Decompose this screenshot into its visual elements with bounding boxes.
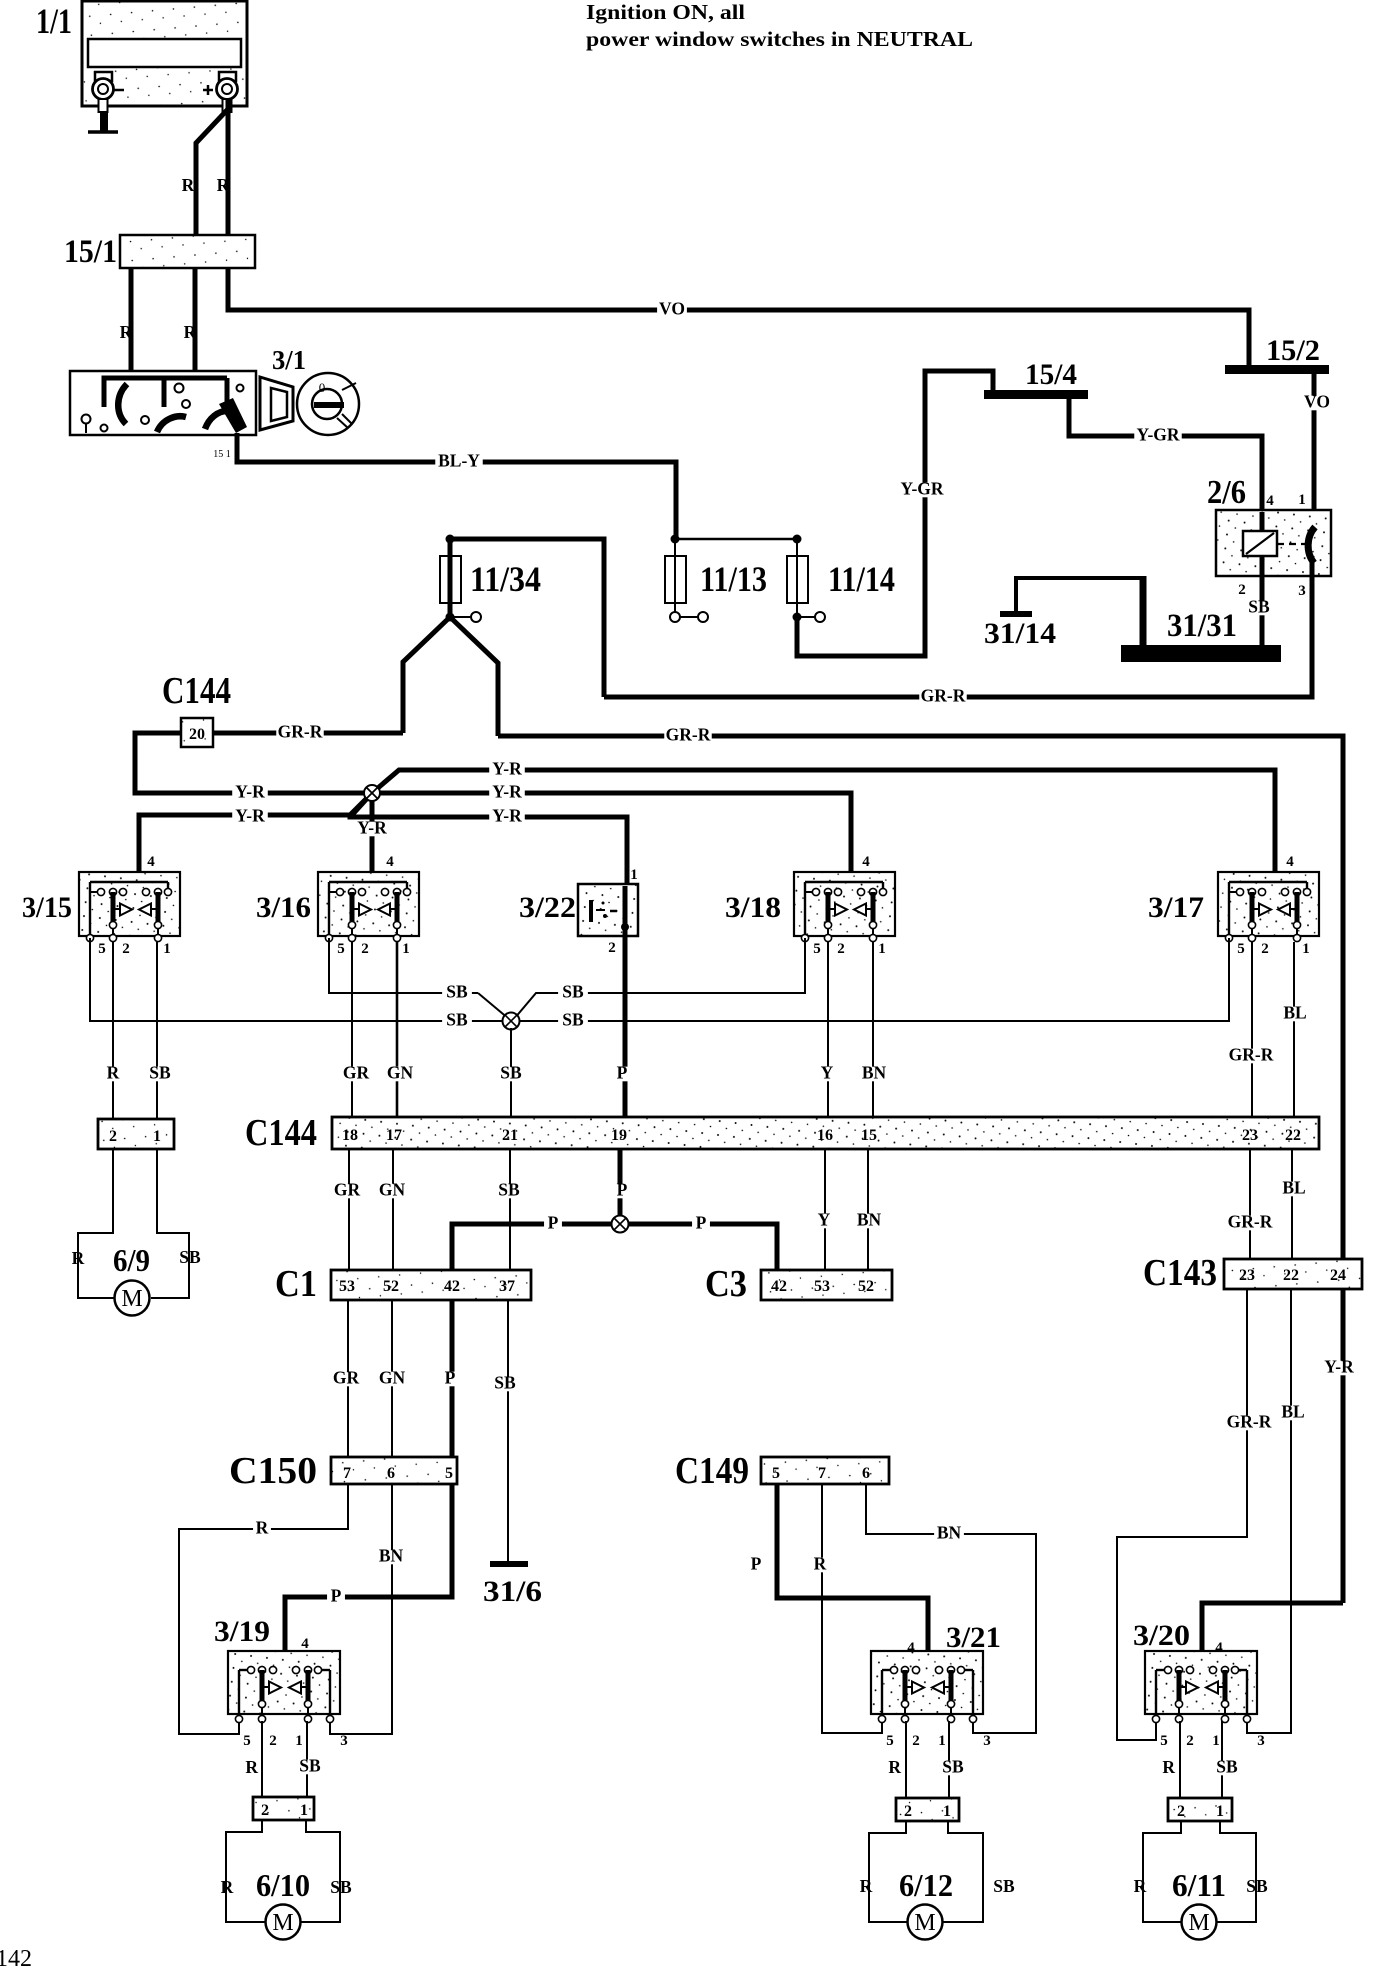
svg-text:2: 2 [269, 1733, 277, 1749]
svg-text:P: P [617, 1063, 628, 1083]
svg-text:0: 0 [319, 380, 326, 395]
wire R connector to motor 6/9 [78, 1149, 114, 1298]
svg-text:3/15: 3/15 [22, 891, 72, 924]
svg-text:GR-R: GR-R [1229, 1045, 1274, 1065]
wire label BL above C143 [1279, 1182, 1309, 1197]
wire label Y-R right mid [489, 786, 525, 801]
svg-text:22: 22 [1283, 1267, 1299, 1284]
svg-text:Y-R: Y-R [1324, 1357, 1354, 1377]
relay 2/6 contact [1308, 527, 1315, 563]
svg-text:6/12: 6/12 [899, 1867, 953, 1903]
wire P C150 to 3/19 pin4 [285, 1484, 452, 1669]
svg-text:R: R [107, 1063, 120, 1083]
wire label GR-R above C144 [1227, 1049, 1274, 1064]
wire Y-R junction to 3/18 [372, 793, 851, 891]
svg-text:R: R [256, 1518, 269, 1538]
svg-text:GR-R: GR-R [921, 686, 966, 706]
svg-text:SB: SB [993, 1876, 1015, 1896]
motor 6/11 symbol [1182, 1905, 1217, 1940]
wire BL-Y ignition to fuse 11/13 [237, 433, 676, 537]
fusebox 15/1 body [120, 235, 255, 268]
svg-text:Y-R: Y-R [492, 782, 522, 802]
svg-text:1: 1 [300, 1802, 308, 1819]
svg-text:2: 2 [608, 940, 616, 956]
svg-text:42: 42 [444, 1278, 460, 1295]
fuse 11/13 body [665, 539, 686, 612]
svg-text:6/9: 6/9 [113, 1242, 150, 1278]
wire P C1 to C150 [450, 1300, 455, 1457]
fuse 11/34 bottom node [446, 613, 455, 622]
wire label Y-GR vertical [898, 483, 945, 498]
svg-text:3/22: 3/22 [519, 891, 576, 924]
ground bus 31/31 bar [1121, 645, 1281, 662]
power window switch 3/16 body [318, 872, 419, 942]
svg-text:7: 7 [343, 1465, 351, 1482]
wire R 15/1 to 3/1 mid [193, 268, 198, 372]
wire label GR-R above C143 [1226, 1216, 1273, 1231]
svg-text:4: 4 [301, 1636, 309, 1652]
wire SB connector to motor 6/12 [943, 1821, 983, 1922]
svg-text:GR-R: GR-R [278, 722, 323, 742]
svg-text:2: 2 [1177, 1803, 1185, 1820]
wire label GN below C144 [377, 1184, 407, 1199]
wire label BN above C144 [859, 1067, 889, 1082]
svg-text:1: 1 [630, 867, 638, 883]
svg-text:SB: SB [562, 1010, 584, 1030]
wire label SB lower right [558, 1014, 588, 1029]
svg-text:power window switches in NEUTR: power window switches in NEUTRAL [586, 27, 973, 51]
wire GR-R C143 to 3/20 pin5 [1117, 1289, 1247, 1740]
wire label Y-R right edge [1321, 1361, 1357, 1376]
ignition key cylinder trapezoid [260, 377, 293, 430]
wire R connector to motor 6/10 [226, 1820, 265, 1922]
wire label SB 3/21 [938, 1761, 968, 1776]
svg-text:R: R [814, 1554, 827, 1574]
wire SB connector to motor 6/9 [151, 1149, 189, 1298]
svg-text:31/14: 31/14 [984, 617, 1056, 650]
svg-text:M: M [121, 1286, 142, 1312]
svg-text:GN: GN [387, 1063, 414, 1083]
svg-text:2: 2 [122, 941, 130, 957]
svg-text:53: 53 [339, 1278, 355, 1295]
svg-text:R: R [184, 322, 197, 342]
svg-text:1: 1 [878, 941, 886, 957]
svg-text:15/1: 15/1 [64, 234, 117, 270]
svg-text:M: M [914, 1910, 935, 1936]
svg-text:GR-R: GR-R [666, 725, 711, 745]
wire Y-R pin20 to junction [135, 733, 372, 793]
wire label GR-R pin20 [276, 726, 323, 741]
wire label BL above C144 [1280, 1007, 1310, 1022]
wire SB long bus lower [90, 938, 1229, 1021]
power window switch 3/18 body [794, 872, 895, 942]
wire SB C144 to C1 [509, 1149, 511, 1270]
svg-text:SB: SB [446, 1010, 468, 1030]
svg-text:1: 1 [1298, 492, 1306, 508]
svg-text:15 1: 15 1 [213, 449, 231, 460]
svg-text:SB: SB [1248, 597, 1270, 617]
svg-text:R: R [245, 1757, 258, 1777]
junction Y-R node [364, 785, 380, 801]
connector C144 bar [332, 1117, 1319, 1149]
wire label SB 3/15 [145, 1067, 175, 1082]
svg-text:GR-R: GR-R [1228, 1212, 1273, 1232]
svg-text:SB: SB [494, 1373, 516, 1393]
wire P C149 to 3/21 pin4 [777, 1484, 928, 1669]
svg-text:P: P [548, 1213, 559, 1233]
wire label BN to 3/21 [934, 1527, 964, 1542]
wire label SB 3/19 [295, 1760, 325, 1775]
wire R 3/21 pin2 to connector [905, 1721, 907, 1798]
svg-text:5: 5 [1237, 941, 1245, 957]
svg-text:BN: BN [937, 1523, 962, 1543]
wire label GN [385, 1067, 415, 1082]
wire VO 15/2 to relay pin1 [1312, 374, 1317, 530]
svg-text:C144: C144 [245, 1112, 317, 1154]
svg-text:Y-R: Y-R [492, 806, 522, 826]
svg-text:C1: C1 [275, 1263, 317, 1305]
svg-text:3: 3 [1298, 583, 1306, 599]
svg-text:2: 2 [1261, 941, 1269, 957]
svg-text:GN: GN [379, 1180, 406, 1200]
svg-text:3/18: 3/18 [725, 891, 781, 924]
wire SB connector to motor 6/11 [1217, 1821, 1256, 1922]
svg-text:BL-Y: BL-Y [438, 451, 480, 471]
wire R C150 to 3/19 pin5 [179, 1484, 348, 1734]
svg-text:BN: BN [857, 1210, 882, 1230]
wire Y C144 to C3 [824, 1149, 826, 1270]
fuse 11/34 top node [446, 535, 455, 544]
svg-text:GR: GR [334, 1180, 361, 1200]
svg-text:M: M [1188, 1910, 1209, 1936]
wire label R 3/15 [104, 1067, 122, 1082]
svg-text:Ignition ON, all: Ignition ON, all [586, 0, 745, 24]
svg-text:SB: SB [562, 982, 584, 1002]
svg-text:2: 2 [361, 941, 369, 957]
svg-text:1: 1 [938, 1733, 946, 1749]
svg-text:BL: BL [1281, 1402, 1304, 1422]
battery negative ground [88, 130, 118, 134]
svg-text:SB: SB [179, 1247, 201, 1267]
svg-text:19: 19 [611, 1127, 627, 1144]
wire SB 3/19 pin1 to connector [306, 1721, 308, 1797]
svg-text:2: 2 [109, 1128, 117, 1145]
svg-text:11/14: 11/14 [828, 559, 895, 599]
wire Y-R to 3/20 pin4 [1202, 1603, 1343, 1669]
svg-text:6/11: 6/11 [1172, 1867, 1226, 1903]
svg-text:2: 2 [837, 941, 845, 957]
wire R battery to 15/1 diagonal [196, 108, 229, 235]
fuse 11/13 top node [671, 535, 680, 544]
svg-text:2: 2 [1238, 582, 1246, 598]
svg-text:20: 20 [189, 726, 205, 743]
svg-text:SB: SB [1246, 1876, 1268, 1896]
svg-text:15: 15 [861, 1127, 877, 1144]
wire 11/13 to 11/14 link [675, 538, 797, 541]
svg-text:142: 142 [0, 1946, 32, 1970]
svg-text:23: 23 [1242, 1127, 1258, 1144]
power window switch 3/20 body [1145, 1651, 1257, 1723]
wire R 3/15 pin2 to connector [112, 942, 114, 1119]
svg-text:42: 42 [771, 1278, 787, 1295]
svg-text:52: 52 [858, 1278, 874, 1295]
svg-text:2/6: 2/6 [1207, 474, 1246, 511]
svg-text:11/34: 11/34 [470, 559, 541, 599]
wire label BL-Y [435, 455, 482, 470]
wire label Y-R left mid [232, 786, 268, 801]
wire SB C1 to ground 31/6 [507, 1300, 509, 1561]
wire label P below C144 [613, 1184, 631, 1199]
svg-text:2: 2 [1186, 1733, 1194, 1749]
power window switch 3/17 body [1218, 872, 1319, 942]
svg-text:C144: C144 [162, 670, 231, 712]
svg-text:53: 53 [814, 1278, 830, 1295]
svg-text:C150: C150 [229, 1450, 317, 1492]
wire R C149 to 3/21 pin5 [822, 1484, 882, 1733]
battery 1/1 body [82, 1, 247, 106]
bus 15/4 bar [984, 390, 1088, 399]
connector C3 bar [761, 1270, 892, 1300]
wire Y-R junction to 3/16 [370, 793, 375, 891]
svg-text:21: 21 [502, 1127, 518, 1144]
wire SB 3/15 pin1 to connector [156, 942, 158, 1119]
svg-text:37: 37 [499, 1278, 515, 1295]
svg-text:2: 2 [912, 1733, 920, 1749]
relay 2/6 coil [1243, 512, 1277, 576]
wire BL C144 to C143 [1291, 1149, 1293, 1259]
wire label Y-R left bottom [232, 810, 268, 825]
svg-text:17: 17 [386, 1127, 402, 1144]
svg-text:SB: SB [149, 1063, 171, 1083]
svg-text:BL: BL [1283, 1003, 1306, 1023]
wire BN C149 to 3/21 pin3 [866, 1484, 1036, 1733]
wire GN C144 to C1 [392, 1149, 394, 1270]
wire relay pin3 stub [1310, 556, 1315, 576]
svg-text:4: 4 [862, 854, 870, 870]
wire label Y-R right bottom [489, 810, 525, 825]
svg-text:5: 5 [1160, 1733, 1168, 1749]
svg-text:VO: VO [659, 299, 685, 319]
wire Y 3/18 pin2 to C144 [827, 942, 829, 1117]
switch 3/22 node [621, 923, 629, 931]
wire label SB above C144 [496, 1067, 526, 1082]
svg-text:R: R [182, 175, 195, 195]
wire label P below C1 [441, 1372, 459, 1387]
svg-text:11/13: 11/13 [700, 559, 767, 599]
svg-text:Y: Y [818, 1210, 831, 1230]
junction P node [612, 1216, 629, 1233]
svg-text:18: 18 [342, 1127, 358, 1144]
wire GR-R C144 to C143 [1249, 1149, 1251, 1259]
svg-text:BL: BL [1282, 1178, 1305, 1198]
svg-text:R: R [217, 175, 230, 195]
svg-text:SB: SB [299, 1756, 321, 1776]
svg-text:P: P [445, 1368, 456, 1388]
svg-text:6: 6 [862, 1465, 870, 1482]
svg-text:Y-R: Y-R [235, 806, 265, 826]
wire label GN below C1 [377, 1372, 407, 1387]
svg-text:Y: Y [821, 1063, 834, 1083]
wire label GR-R to right [664, 729, 711, 744]
wire label SB 3/20 [1212, 1761, 1242, 1776]
svg-text:4: 4 [1266, 493, 1274, 509]
wire GR-R 11/34 to right edge [498, 736, 1343, 1603]
wire label SB below C144 [494, 1184, 524, 1199]
wire label BL below C143 [1278, 1406, 1308, 1421]
svg-text:22: 22 [1285, 1127, 1301, 1144]
svg-text:Y-GR: Y-GR [1136, 425, 1179, 445]
wire Y-R junction to 3/15 [139, 793, 372, 891]
motor 6/10 symbol [266, 1905, 301, 1940]
svg-text:4: 4 [1286, 854, 1294, 870]
svg-text:R: R [860, 1876, 873, 1896]
svg-text:GN: GN [379, 1368, 406, 1388]
svg-text:3/16: 3/16 [256, 891, 311, 924]
svg-text:31/6: 31/6 [483, 1575, 542, 1608]
svg-text:6: 6 [387, 1465, 395, 1482]
ignition switch 3/1 body [70, 371, 256, 435]
wire label GR-R below C143 [1225, 1416, 1272, 1431]
svg-text:16: 16 [817, 1127, 833, 1144]
fuse 11/14 top node [793, 535, 802, 544]
wire Y-GR 11/14 to 15/4 [797, 371, 993, 656]
wire R 15/1 to 3/1 left [129, 268, 134, 372]
svg-text:R: R [221, 1877, 234, 1897]
bus 15/2 bar [1225, 365, 1329, 374]
svg-text:3: 3 [1257, 1733, 1265, 1749]
wire Y-GR 15/4 to relay pin4 [1069, 399, 1262, 512]
svg-text:Y-R: Y-R [235, 782, 265, 802]
wire label Y above C3 [815, 1214, 833, 1229]
fuse 11/34 body [440, 539, 461, 617]
wire label Y-R below junction [354, 822, 390, 837]
connector C150 bar [331, 1457, 457, 1484]
svg-text:3: 3 [983, 1733, 991, 1749]
ground 31/6 symbol [490, 1561, 528, 1567]
wire SB junction to C144 pin21 [510, 1028, 512, 1117]
svg-text:SB: SB [330, 1877, 352, 1897]
svg-text:R: R [72, 1248, 85, 1268]
wire BL C143 to 3/20 pin3 [1247, 1289, 1291, 1733]
connector 6/9 box [98, 1119, 174, 1149]
wire SB 3/21 pin1 to connector [948, 1721, 950, 1798]
wire SB diagonal left upper [478, 993, 509, 1019]
battery positive terminal [217, 72, 238, 112]
svg-text:1: 1 [1216, 1803, 1224, 1820]
svg-text:5: 5 [337, 941, 345, 957]
wire label BN above C3 [854, 1214, 884, 1229]
svg-text:1: 1 [153, 1128, 161, 1145]
wire label VO vertical [1302, 396, 1332, 411]
wire GR 3/16 pin2 to C144 [351, 942, 353, 1117]
connector C144 pin20 box [181, 718, 213, 747]
wire GN 3/16 pin1 to C144 [396, 942, 399, 1117]
svg-text:P: P [696, 1213, 707, 1233]
power window switch 3/15 body [79, 872, 180, 942]
svg-text:5: 5 [886, 1733, 894, 1749]
svg-text:5: 5 [243, 1733, 251, 1749]
wire BN C144 to C3 [867, 1149, 869, 1270]
svg-text:5: 5 [813, 941, 821, 957]
svg-text:1: 1 [295, 1733, 303, 1749]
wire label GR-R relay run [919, 690, 966, 705]
svg-text:1: 1 [163, 941, 171, 957]
battery minus sign [114, 89, 124, 92]
svg-text:BN: BN [379, 1546, 404, 1566]
wire label P to 3/19 [327, 1590, 345, 1605]
wire label R below C150 [253, 1522, 271, 1537]
wire R 3/20 pin2 to connector [1179, 1721, 1181, 1798]
wire BN C150 to 3/19 pin3 [330, 1484, 392, 1734]
svg-text:15/2: 15/2 [1266, 334, 1320, 367]
wire P junction to C3 pin42 [620, 1224, 777, 1270]
wire P junction to C1 pin42 [452, 1224, 620, 1270]
fuse 11/14 body [787, 539, 808, 617]
junction SB node [503, 1013, 520, 1030]
wire R 3/19 pin2 to connector [261, 1721, 263, 1797]
wire SB 3/20 pin1 to connector [1221, 1721, 1223, 1798]
svg-text:31/31: 31/31 [1167, 608, 1237, 644]
ignition key circle [297, 373, 359, 435]
svg-text:R: R [120, 322, 133, 342]
svg-text:23: 23 [1239, 1267, 1255, 1284]
wire label SB relay [1244, 601, 1274, 616]
wire label SB upper right [558, 986, 588, 1001]
motor 6/12 symbol [908, 1905, 943, 1940]
wire SB junction to 3/18 upper [514, 938, 805, 1019]
svg-text:R: R [888, 1757, 901, 1777]
relay 2/6 dashed link [1277, 543, 1306, 545]
svg-text:3/21: 3/21 [946, 1621, 1001, 1654]
wire label VO [657, 303, 687, 318]
wire 11/34 branch right GR-R [450, 617, 498, 736]
wire label P right of junction [692, 1217, 710, 1232]
svg-text:GR: GR [343, 1063, 370, 1083]
wire label SB below C1 [490, 1377, 520, 1392]
svg-text:SB: SB [500, 1063, 522, 1083]
connector C1 bar [331, 1270, 531, 1300]
wire 11/34 branch left to C144 pin20 [403, 617, 450, 733]
svg-text:SB: SB [942, 1757, 964, 1777]
svg-text:P: P [617, 1180, 628, 1200]
wire BN 3/18 pin1 to C144 [872, 942, 874, 1117]
svg-text:GR: GR [333, 1368, 360, 1388]
wire SB 3/16 to junction upper [329, 938, 478, 993]
wire SB connector to motor 6/10 [301, 1820, 340, 1922]
connector C149 bar [761, 1457, 889, 1484]
svg-text:R: R [1134, 1876, 1147, 1896]
wire BL 3/17 pin1 to C144 [1293, 942, 1295, 1117]
wire GR-R relay pin3 run [604, 576, 1312, 697]
wire Y-R junction to 3/22 [350, 793, 627, 886]
svg-text:Y-R: Y-R [492, 759, 522, 779]
wire GN C1 to C150 [391, 1300, 393, 1457]
svg-text:2: 2 [261, 1802, 269, 1819]
wire R connector to motor 6/11 [1143, 1821, 1181, 1922]
svg-text:5: 5 [772, 1465, 780, 1482]
battery negative terminal [93, 72, 114, 132]
svg-text:1: 1 [1302, 941, 1310, 957]
connector C143 bar [1224, 1259, 1362, 1289]
wire R battery to 15/1 straight [226, 100, 231, 235]
wire label P above C144 [613, 1067, 631, 1082]
svg-text:C143: C143 [1143, 1252, 1217, 1294]
svg-text:SB: SB [498, 1180, 520, 1200]
wire label P left of junction [544, 1217, 562, 1232]
wire label BN below C150 [376, 1550, 406, 1565]
svg-text:3/1: 3/1 [272, 345, 306, 375]
svg-text:VO: VO [1304, 392, 1330, 412]
